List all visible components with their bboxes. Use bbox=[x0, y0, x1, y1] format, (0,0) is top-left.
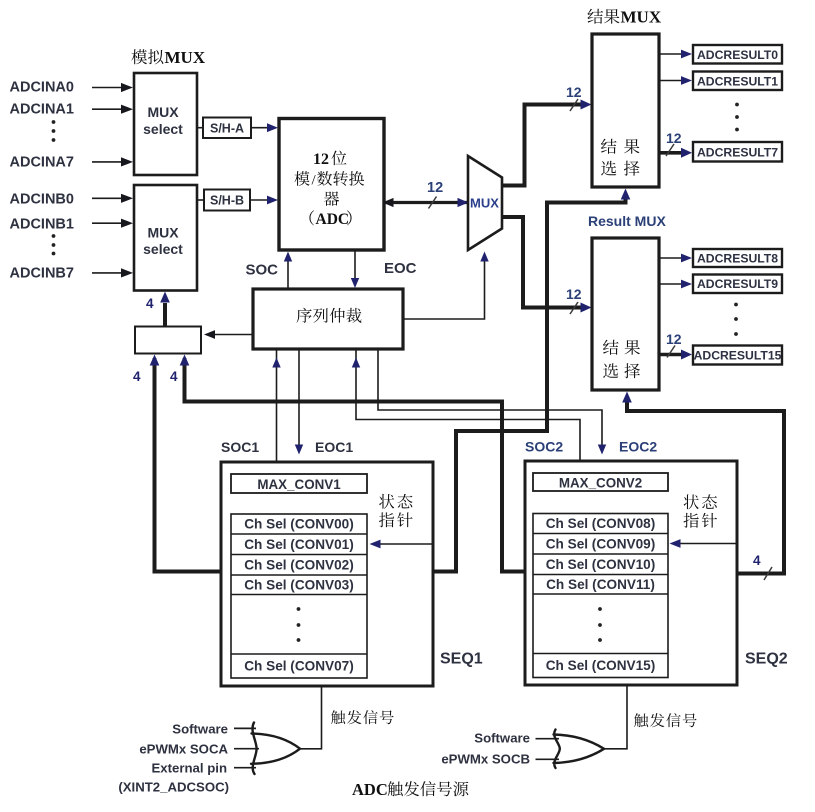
svg-text:4: 4 bbox=[170, 369, 178, 384]
wire state pointer 1 arrow bbox=[375, 543, 433, 545]
S/H-A box bbox=[203, 118, 251, 139]
SEQ2 cell divider bbox=[533, 533, 668, 535]
svg-text:Ch Sel (CONV15): Ch Sel (CONV15) bbox=[546, 658, 656, 673]
label state pointer 2 状态指针 bbox=[684, 494, 699, 509]
svg-text:ADC: ADC bbox=[316, 211, 350, 228]
analog mux A box (MUX select) bbox=[134, 73, 197, 175]
wire SOC2 (SEQ2 to arbiter) bbox=[356, 350, 580, 461]
wire state pointer 2 arrow bbox=[675, 543, 737, 545]
bus mux to result-select-2 (12) bbox=[502, 217, 584, 308]
svg-text:ADCRESULT15: ADCRESULT15 bbox=[694, 349, 782, 363]
OR2 input ePWMx SOCB bbox=[536, 758, 560, 760]
ADC text line3 器 bbox=[324, 191, 339, 205]
wire input ADCINA1 bbox=[92, 108, 122, 110]
mux trapezoid bbox=[468, 156, 502, 250]
ADCRESULT8 box bbox=[693, 249, 782, 267]
bus SEQ2 to result-select-2 (4) bbox=[627, 398, 784, 574]
ADC text line2 模/数转换 bbox=[294, 171, 309, 186]
OR2 input Software bbox=[536, 738, 560, 740]
svg-text:12: 12 bbox=[666, 130, 682, 146]
svg-text:S/H-A: S/H-A bbox=[210, 122, 244, 136]
ADC converter box bbox=[279, 119, 384, 251]
wire input ADCINB1 bbox=[92, 222, 122, 224]
svg-text:Ch Sel (CONV02): Ch Sel (CONV02) bbox=[244, 558, 354, 573]
svg-text:SOC1: SOC1 bbox=[221, 439, 259, 455]
wire S/H-A to ADC bbox=[251, 127, 270, 129]
svg-text:12: 12 bbox=[566, 286, 582, 302]
ellipsis dots SEQ1 cells bbox=[297, 607, 301, 611]
wire muxA to S/H-A bbox=[197, 127, 203, 129]
SEQ1 cell divider bbox=[231, 533, 367, 535]
svg-text:MAX_CONV1: MAX_CONV1 bbox=[257, 477, 341, 492]
svg-text:SOC: SOC bbox=[246, 262, 279, 279]
label trigger signal 2 触发信号 bbox=[634, 713, 648, 727]
ellipsis dots ADCINB bbox=[52, 234, 56, 238]
svg-text:ADCRESULT1: ADCRESULT1 bbox=[697, 75, 778, 89]
svg-text:ADCRESULT8: ADCRESULT8 bbox=[697, 252, 778, 266]
svg-text:/: / bbox=[312, 173, 317, 189]
svg-text:MUX: MUX bbox=[147, 225, 179, 241]
ellipsis dots ADCINA bbox=[52, 120, 56, 124]
SEQ1 cell divider bbox=[231, 554, 367, 556]
SEQ2 cell divider bbox=[533, 574, 668, 576]
svg-text:MUX: MUX bbox=[147, 104, 179, 120]
bus ADC to MUX (12) bbox=[384, 201, 467, 204]
wire result1 to ADCRESULT0 bbox=[659, 53, 681, 55]
wire input ADCINB7 bbox=[92, 272, 122, 274]
svg-text:Ch Sel (CONV11): Ch Sel (CONV11) bbox=[546, 577, 655, 592]
SEQ1 cell divider bbox=[231, 574, 367, 576]
ADCRESULT9 box bbox=[693, 275, 782, 294]
svg-text:ePWMx SOCA: ePWMx SOCA bbox=[139, 742, 228, 757]
SEQ1 cell divider bbox=[231, 594, 367, 596]
OR1 input ePWMx SOCA bbox=[234, 748, 259, 750]
wire trigger to SEQ1 bbox=[300, 686, 322, 749]
svg-text:ADCRESULT0: ADCRESULT0 bbox=[697, 48, 778, 62]
wire result1 to ADCRESULT1 bbox=[659, 80, 681, 82]
wire result2 to ADCRESULT9 bbox=[659, 283, 681, 285]
OR gate 2 bbox=[554, 730, 605, 769]
wire SOC1 (SEQ1 to arbiter) bbox=[276, 350, 278, 461]
svg-text:SEQ2: SEQ2 bbox=[745, 651, 788, 668]
result select 2 text 结果选择 bbox=[603, 340, 619, 355]
svg-text:MUX: MUX bbox=[470, 196, 499, 211]
ellipsis dots ADCRESULT8-15 bbox=[734, 303, 738, 307]
result select 1 text 结果选择 bbox=[601, 139, 617, 154]
svg-text:ADCINA0: ADCINA0 bbox=[10, 80, 74, 96]
svg-text:Ch Sel (CONV09): Ch Sel (CONV09) bbox=[546, 537, 656, 552]
label 结果MUX bbox=[588, 9, 604, 24]
svg-text:Ch Sel (CONV08): Ch Sel (CONV08) bbox=[546, 516, 656, 531]
svg-text:4: 4 bbox=[133, 369, 141, 384]
SEQ2 channel cells outline bbox=[533, 514, 668, 678]
svg-text:ADCRESULT7: ADCRESULT7 bbox=[697, 146, 778, 160]
svg-text:Ch Sel (CONV01): Ch Sel (CONV01) bbox=[244, 537, 354, 552]
bus mux to result-select-1 (12) bbox=[502, 105, 584, 186]
ADCRESULT15 box bbox=[693, 346, 782, 365]
wire trigger to SEQ2 bbox=[604, 685, 627, 749]
svg-text:EOC1: EOC1 bbox=[315, 439, 353, 455]
SEQ2 cell divider bbox=[533, 593, 668, 595]
ADC text line4 （ADC） bbox=[309, 210, 314, 225]
svg-text:Ch Sel (CONV10): Ch Sel (CONV10) bbox=[546, 557, 656, 572]
SEQ2 cell divider bbox=[533, 653, 668, 655]
label trigger signal 1 触发信号 bbox=[331, 710, 345, 724]
svg-text:12: 12 bbox=[313, 151, 329, 168]
svg-text:External pin: External pin bbox=[152, 761, 227, 776]
OR gate 1 bbox=[251, 723, 300, 775]
svg-text:4: 4 bbox=[753, 553, 761, 568]
svg-text:(XINT2_ADCSOC): (XINT2_ADCSOC) bbox=[118, 780, 229, 795]
svg-text:ADCINA1: ADCINA1 bbox=[10, 102, 74, 118]
svg-text:ADCINB0: ADCINB0 bbox=[10, 192, 74, 208]
ellipsis dots ADCRESULT0-7 bbox=[735, 103, 739, 107]
S/H-B box bbox=[204, 190, 250, 211]
svg-text:ADCINB7: ADCINB7 bbox=[10, 266, 74, 282]
SEQ2 sequencer box bbox=[525, 461, 737, 685]
wire muxB to S/H-B bbox=[197, 199, 204, 201]
channel select register box bbox=[135, 327, 201, 354]
wire arbiter to mux select bbox=[404, 257, 485, 319]
ADCRESULT7 box bbox=[693, 142, 782, 162]
label state pointer 1 状态指针 bbox=[379, 494, 394, 509]
svg-text:Software: Software bbox=[172, 722, 228, 737]
sequence arbiter text bbox=[297, 308, 312, 323]
wire S/H-B to ADC bbox=[250, 199, 270, 201]
svg-text:ADCINB1: ADCINB1 bbox=[10, 217, 74, 233]
wire input ADCINB0 bbox=[92, 197, 122, 199]
svg-text:Result MUX: Result MUX bbox=[588, 213, 666, 229]
wire EOC (ADC to arbiter) bbox=[354, 251, 356, 283]
SEQ2 cell divider bbox=[533, 553, 668, 555]
svg-text:EOC2: EOC2 bbox=[619, 439, 657, 455]
ellipsis dots SEQ2 cells bbox=[598, 607, 602, 611]
MAX_CONV2 box bbox=[533, 473, 668, 491]
svg-text:SOC2: SOC2 bbox=[525, 439, 563, 455]
wire EOC1 (arbiter to SEQ1) bbox=[298, 350, 300, 450]
svg-text:EOC: EOC bbox=[384, 260, 417, 277]
SEQ1 channel cells outline bbox=[231, 514, 367, 678]
svg-text:select: select bbox=[143, 241, 183, 257]
result select 2 box bbox=[592, 238, 659, 390]
svg-text:Software: Software bbox=[474, 731, 530, 746]
svg-text:ADCINA7: ADCINA7 bbox=[10, 155, 74, 171]
wire input ADCINA7 bbox=[92, 161, 122, 163]
label analog MUX (Chinese) + MUX bbox=[131, 49, 147, 64]
wire SOC (arbiter to ADC) bbox=[287, 256, 289, 288]
OR1 input External pin bbox=[234, 767, 256, 769]
svg-text:12: 12 bbox=[427, 180, 443, 196]
bus result2 to ADCRESULT15 (12) bbox=[659, 353, 684, 357]
svg-text:S/H-B: S/H-B bbox=[210, 194, 244, 208]
MAX_CONV1 box bbox=[231, 474, 367, 493]
svg-text:4: 4 bbox=[146, 296, 154, 311]
svg-text:SEQ1: SEQ1 bbox=[440, 651, 483, 668]
svg-text:MAX_CONV2: MAX_CONV2 bbox=[559, 476, 642, 491]
ADCRESULT1 box bbox=[693, 72, 782, 91]
bus SEQ1 to result-select-1 (state pointer) bbox=[433, 196, 626, 572]
bus chsel register to analog mux (4) bbox=[163, 303, 167, 327]
ADCRESULT0 box bbox=[693, 45, 782, 64]
bus SEQ2 to chsel register (4) bbox=[185, 358, 526, 572]
SEQ1 sequencer box bbox=[221, 462, 433, 686]
svg-text:ADC: ADC bbox=[352, 780, 388, 799]
wire arbiter to chsel register bbox=[214, 334, 253, 336]
wire result2 to ADCRESULT8 bbox=[659, 257, 681, 259]
bus SEQ1 to chsel register (4) bbox=[155, 358, 222, 572]
analog mux B box (MUX select) bbox=[134, 185, 197, 291]
svg-text:MUX: MUX bbox=[621, 8, 662, 27]
svg-text:Ch Sel (CONV07): Ch Sel (CONV07) bbox=[244, 659, 354, 674]
svg-text:Ch Sel (CONV03): Ch Sel (CONV03) bbox=[244, 578, 354, 593]
svg-text:select: select bbox=[143, 121, 183, 137]
svg-text:ADCRESULT9: ADCRESULT9 bbox=[697, 277, 778, 291]
svg-text:12: 12 bbox=[666, 331, 682, 347]
result select 1 box bbox=[592, 34, 659, 187]
bus result1 to ADCRESULT7 (12) bbox=[659, 151, 684, 155]
wire EOC2 (arbiter to SEQ2) bbox=[378, 350, 602, 450]
wire input ADCINA0 bbox=[92, 87, 122, 89]
SEQ1 cell divider bbox=[231, 653, 367, 655]
svg-text:MUX: MUX bbox=[165, 48, 206, 67]
sequence arbiter box 序列仲裁 bbox=[253, 289, 403, 349]
svg-text:ePWMx SOCB: ePWMx SOCB bbox=[441, 752, 530, 767]
OR1 input Software bbox=[234, 727, 256, 729]
svg-text:Ch Sel (CONV00): Ch Sel (CONV00) bbox=[244, 517, 354, 532]
svg-text:12: 12 bbox=[566, 84, 582, 100]
